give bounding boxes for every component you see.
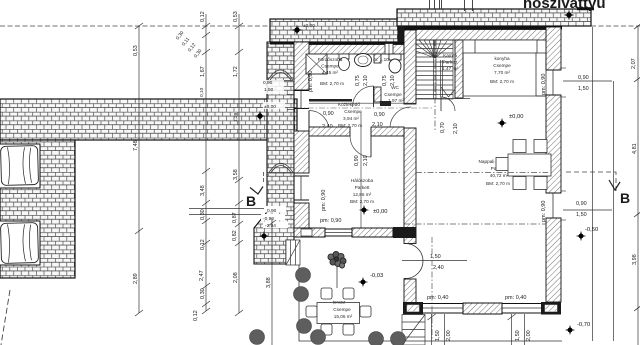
- west window sill marks: [287, 94, 294, 96]
- french door dims: [402, 260, 467, 262]
- level label 0,90 on pier: [264, 206, 286, 213]
- bushes: [250, 268, 406, 345]
- svg-text:0,70: 0,70: [440, 122, 446, 133]
- svg-text:BM: 2,70 m: BM: 2,70 m: [350, 199, 374, 204]
- svg-text:3,58: 3,58: [233, 169, 239, 180]
- level star on top band left: [291, 24, 302, 35]
- south wall living: corner pillar west: [403, 302, 423, 315]
- svg-text:2,00: 2,00: [446, 330, 452, 341]
- heat pump unit black: [577, 7, 594, 10]
- south wall center pier: [463, 303, 502, 314]
- car niche 2: [0, 221, 40, 265]
- svg-text:Fürdőszoba: Fürdőszoba: [318, 57, 343, 62]
- car 1: [1, 146, 39, 186]
- east window 2: [546, 191, 566, 220]
- svg-text:0,82: 0,82: [232, 230, 238, 241]
- svg-text:m: 1,10: m: 1,10: [373, 57, 389, 62]
- kitchen counter top: [463, 40, 546, 96]
- svg-text:Csempe: Csempe: [344, 109, 362, 114]
- svg-text:pm: 0,90: pm: 0,90: [320, 218, 341, 224]
- stairs walking line: [434, 40, 436, 130]
- axis dash-dot through french door: [431, 237, 433, 340]
- wall step connector at x=397: [398, 26, 405, 42]
- svg-text:2,10: 2,10: [363, 155, 369, 166]
- bath south wall: [309, 99, 352, 102]
- svg-text:konyha: konyha: [494, 56, 510, 61]
- house top brick band right segment: [397, 9, 591, 26]
- svg-text:0,30: 0,30: [200, 288, 206, 299]
- svg-text:2,08: 2,08: [233, 272, 239, 283]
- svg-text:2,00: 2,00: [526, 330, 532, 341]
- north wall hatch left part (bath/wc): [270, 42, 404, 54]
- svg-text:Hálószoba: Hálószoba: [351, 178, 374, 183]
- svg-text:2,40: 2,40: [433, 265, 444, 271]
- plot line right vertical: [592, 27, 594, 341]
- svg-text:-0,70: -0,70: [577, 322, 590, 328]
- east window 1 leader: [541, 74, 612, 95]
- wc toilet: [389, 54, 401, 73]
- kitchen west wall: [455, 40, 463, 98]
- svg-text:1,50: 1,50: [264, 87, 274, 93]
- dashed boundary bottom-left: [1, 290, 10, 345]
- level star on pier: [259, 231, 269, 241]
- svg-text:hőszivattyú: hőszivattyú: [523, 0, 606, 12]
- bath sink: [355, 54, 372, 67]
- svg-text:±0,00: ±0,00: [509, 114, 523, 120]
- svg-text:Csempe: Csempe: [384, 92, 402, 97]
- svg-text:0,90: 0,90: [354, 155, 360, 166]
- dimension line x268 (3,88): [268, 218, 276, 345]
- south window west: [423, 304, 463, 314]
- svg-text:4,45 m²: 4,45 m²: [322, 70, 338, 75]
- east wall hatched with windows: [546, 27, 561, 302]
- svg-text:±0,00: ±0,00: [264, 104, 276, 110]
- svg-text:0,12: 0,12: [193, 310, 199, 321]
- svg-text:Parkett: Parkett: [443, 60, 459, 65]
- svg-text:pm: 0,90: pm: 0,90: [541, 74, 547, 95]
- level text garage band: [263, 102, 285, 109]
- svg-text:0,12: 0,12: [200, 11, 206, 22]
- dining table NE: [496, 140, 551, 190]
- brick arch lower: [269, 163, 293, 173]
- garage vertical wall band: [0, 140, 75, 278]
- svg-text:0,90: 0,90: [374, 112, 385, 118]
- dimension line x139: [135, 23, 143, 316]
- svg-text:2,10: 2,10: [390, 75, 396, 86]
- svg-text:1,47 m²: 1,47 m²: [442, 66, 458, 71]
- hall north face line: [309, 102, 416, 104]
- exterior steps SW below living: [402, 315, 425, 345]
- west entry door 1 opening with swing: [309, 110, 329, 130]
- vent stack: [385, 44, 393, 55]
- brick arch upper: [268, 70, 293, 81]
- living room text: [478, 159, 510, 186]
- svg-text:0,75: 0,75: [382, 75, 388, 86]
- svg-text:±0,00: ±0,00: [303, 23, 315, 29]
- svg-text:1,50: 1,50: [515, 330, 521, 341]
- bathroom text: [318, 57, 344, 86]
- svg-text:1,97 m²: 1,97 m²: [388, 98, 404, 103]
- svg-text:B: B: [246, 193, 256, 209]
- spine wall (wc/bedroom/living west): [404, 30, 416, 303]
- svg-text:0,53: 0,53: [233, 11, 239, 22]
- svg-text:0,87: 0,87: [232, 212, 238, 223]
- svg-text:pm: 0,40: pm: 0,40: [505, 295, 526, 301]
- door axis line vertical: [360, 112, 362, 236]
- stair landing bottom line: [416, 98, 470, 100]
- svg-text:4,81: 4,81: [632, 143, 638, 154]
- living axis dash 1: [416, 172, 548, 174]
- east window 2 leader: [541, 201, 612, 222]
- level label -0,90 on pier: [261, 214, 285, 221]
- svg-text:pm: 0,90: pm: 0,90: [321, 190, 327, 211]
- hall axis dash: [296, 107, 432, 109]
- bottom window dim lines: [428, 314, 525, 345]
- south wall corner pillar east: [541, 302, 561, 315]
- dimension line x239: [235, 14, 243, 316]
- svg-text:1,50: 1,50: [578, 86, 589, 92]
- bath toilet: [339, 54, 349, 59]
- svg-text:0,53: 0,53: [133, 45, 139, 56]
- terrace table with chairs: [306, 288, 371, 335]
- svg-text:1,50: 1,50: [430, 254, 441, 260]
- svg-text:40,72 m²: 40,72 m²: [490, 173, 509, 178]
- svg-text:2,47: 2,47: [199, 270, 205, 281]
- west window 2 (bedroom): [294, 176, 309, 200]
- svg-text:1,29: 1,29: [233, 112, 239, 122]
- kitchen floor line: [463, 95, 546, 97]
- south window east: [502, 304, 541, 314]
- west wall (hatched) with openings: [294, 42, 309, 228]
- window dim extension line right: [613, 81, 615, 341]
- svg-text:Csempe: Csempe: [493, 63, 511, 68]
- svg-text:0,12: 0,12: [200, 239, 206, 250]
- wc south wall: [380, 101, 391, 106]
- svg-text:±0,00: ±0,00: [373, 209, 387, 215]
- wc door swing: [390, 107, 411, 128]
- pantry partition under stairs: [441, 60, 443, 97]
- property line dashed top: [0, 25, 271, 27]
- fence lines left of pier: [189, 208, 265, 210]
- stairs: [416, 40, 453, 99]
- svg-text:0,75: 0,75: [355, 75, 361, 86]
- house top brick band left segment: [270, 19, 398, 42]
- svg-text:-0,03: -0,03: [370, 273, 383, 279]
- wc text: [373, 57, 404, 103]
- level label -2,04 on pier: [263, 222, 288, 229]
- car 2: [0, 223, 38, 264]
- svg-text:2,10: 2,10: [363, 75, 369, 86]
- svg-text:0,90: 0,90: [578, 75, 589, 81]
- overhang dashed right: [566, 172, 616, 192]
- bath door swing: [353, 86, 374, 107]
- svg-text:BM: 2,70 m: BM: 2,70 m: [490, 79, 514, 84]
- svg-text:BM: 2,70 m: BM: 2,70 m: [486, 181, 510, 186]
- svg-text:Csempe: Csempe: [333, 307, 351, 312]
- svg-text:15,06 m²: 15,06 m²: [334, 314, 353, 319]
- svg-text:0,30: 0,30: [200, 209, 206, 220]
- svg-text:3,88: 3,88: [266, 277, 272, 288]
- bedroom south wall with window: [294, 227, 416, 238]
- car niche 1: [0, 144, 40, 188]
- svg-text:Kamra: Kamra: [443, 53, 457, 58]
- svg-text:1,72: 1,72: [233, 66, 239, 77]
- bedroom door swing: [350, 136, 371, 157]
- svg-text:1,67: 1,67: [200, 66, 206, 77]
- west window 1: [294, 91, 309, 109]
- svg-text:1,50: 1,50: [435, 330, 441, 341]
- svg-text:Közlekedő: Közlekedő: [338, 102, 360, 107]
- north wall hatch right part (stairs/kitchen): [398, 26, 562, 40]
- svg-text:3,48: 3,48: [200, 185, 206, 196]
- svg-text:-0,50: -0,50: [585, 227, 598, 233]
- svg-text:3,94 m²: 3,94 m²: [343, 116, 359, 121]
- svg-text:7,48: 7,48: [133, 140, 139, 151]
- svg-text:0,90: 0,90: [263, 80, 273, 86]
- garage pier (brick, band to porch, chamfered): [254, 42, 294, 264]
- shower: [306, 54, 327, 74]
- pantry door arc: [441, 97, 455, 111]
- window dim labels on brick 0,90/1,50: [262, 80, 284, 94]
- pantry sloped ceiling V: [441, 87, 457, 97]
- svg-text:2,10: 2,10: [453, 123, 459, 134]
- property line dashed top right: [591, 25, 640, 27]
- svg-text:Parkett: Parkett: [355, 185, 371, 190]
- bathroom/wc divider wall: [374, 54, 381, 102]
- east window 1: [546, 68, 566, 97]
- level star on top band right: [563, 9, 574, 20]
- svg-text:0,90: 0,90: [323, 111, 334, 117]
- svg-text:pm: 0,40: pm: 0,40: [427, 295, 448, 301]
- svg-text:BM: 2,70 m: BM: 2,70 m: [320, 81, 344, 86]
- svg-text:terasz: terasz: [333, 300, 346, 305]
- svg-text:12,86 m²: 12,86 m²: [353, 192, 372, 197]
- svg-text:Csempe: Csempe: [321, 64, 339, 69]
- living axis dash 2: [404, 223, 546, 225]
- svg-text:7,70 m²: 7,70 m²: [494, 70, 510, 75]
- plant symbol: [328, 251, 346, 288]
- svg-text:-0,90: -0,90: [263, 216, 274, 222]
- svg-text:3,98: 3,98: [632, 254, 638, 265]
- dimension line x206: [202, 14, 210, 314]
- svg-text:2,89: 2,89: [133, 273, 139, 284]
- svg-text:2,07: 2,07: [631, 58, 637, 69]
- french door west living: [404, 244, 423, 279]
- kitchen text: [490, 56, 514, 84]
- pantry text: [442, 53, 458, 71]
- section marker B right: [609, 180, 630, 206]
- svg-text:0,10: 0,10: [199, 87, 205, 97]
- garage horizontal wall band: [0, 99, 297, 140]
- svg-text:pm: 0,90: pm: 0,90: [541, 201, 547, 222]
- section marker B left: [246, 172, 264, 209]
- bedroom text: [350, 178, 374, 204]
- chimney rects above band: [430, 0, 442, 9]
- svg-text:B: B: [620, 190, 630, 206]
- bedroom north wall: [309, 127, 404, 136]
- svg-text:pm: 0,90: pm: 0,90: [308, 71, 314, 92]
- hall text: [338, 102, 362, 128]
- porch shaft west: [286, 240, 300, 265]
- svg-text:0,90: 0,90: [267, 208, 277, 214]
- terrace text: [333, 300, 353, 320]
- svg-text:1,50: 1,50: [576, 212, 587, 218]
- svg-text:0,90: 0,90: [576, 201, 587, 207]
- right dimension line: [634, 23, 640, 345]
- terrace outline: [299, 265, 562, 341]
